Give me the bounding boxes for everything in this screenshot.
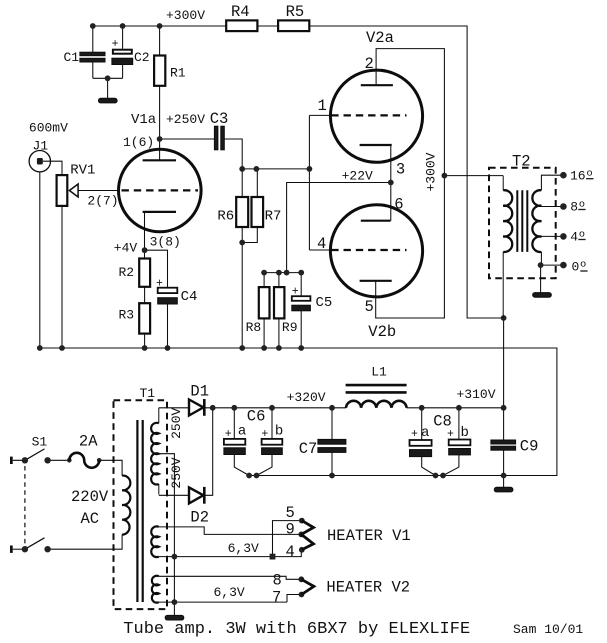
T1 HV secondary winding (centre tapped): [151, 423, 159, 485]
svg-text:5: 5: [286, 504, 295, 522]
resistor R6: [236, 197, 248, 227]
svg-text:D2: D2: [190, 509, 209, 527]
svg-text:C4: C4: [181, 289, 198, 305]
svg-text:6,3V: 6,3V: [214, 585, 245, 600]
svg-text:R2: R2: [119, 265, 135, 280]
svg-text:8º: 8º: [570, 199, 586, 214]
wire: C6a and C6b leads: [234, 408, 272, 476]
svg-text:1: 1: [318, 97, 327, 115]
svg-text:6,3V: 6,3V: [228, 541, 259, 556]
wire: T2 secondary taps to terminals: [541, 175, 564, 292]
T1 core: [137, 420, 142, 602]
capacitor C6a (electrolytic): [224, 439, 245, 445]
V2b plate (bottom): [360, 280, 392, 282]
S1 input terminal lower: [10, 546, 13, 553]
heater chevron V2: [301, 579, 314, 594]
resistor R9: [274, 287, 284, 318]
wire: B+ top rail from C1 to R4, R4-R5 link, R5 to right edge down to primary-bottom node: [93, 26, 504, 408]
resistor R7: [252, 197, 264, 227]
svg-text:5: 5: [365, 298, 374, 316]
svg-text:R4: R4: [231, 3, 250, 21]
svg-text:Sam 10/01: Sam 10/01: [513, 622, 583, 637]
wire: C7 leads: [331, 408, 333, 476]
V2b grid (dashed): [331, 249, 406, 251]
potentiometer RV1 wiper arrow: [69, 184, 78, 197]
heater chevrons V1: [301, 521, 313, 550]
svg-text:R6: R6: [217, 208, 234, 224]
svg-text:2(7): 2(7): [87, 194, 118, 209]
svg-text:16º: 16º: [570, 169, 593, 184]
resistor R1: [154, 56, 165, 86]
svg-text:+250V: +250V: [166, 112, 205, 127]
V2b cathode (top): [361, 220, 391, 222]
svg-text:AC: AC: [81, 510, 100, 528]
svg-text:4: 4: [317, 235, 326, 253]
svg-text:a: a: [238, 424, 246, 440]
capacitor C3: [214, 126, 218, 150]
svg-text:C1: C1: [64, 50, 80, 65]
svg-text:+: +: [447, 428, 454, 441]
V1a grid (dashed): [122, 189, 199, 191]
svg-text:T1: T1: [140, 386, 156, 401]
capacitor C8b (electrolytic): [449, 440, 471, 446]
resistor R8: [259, 287, 270, 318]
svg-text:+: +: [225, 428, 232, 441]
svg-text:R7: R7: [265, 208, 282, 224]
wire: S1 upper pole and fuse link: [13, 459, 70, 461]
wire: C8a and C8b leads: [422, 408, 459, 476]
transformer T1 box (dashed): [114, 400, 168, 609]
V2a grid (dashed): [331, 114, 406, 116]
switch S1 blades: [25, 449, 45, 549]
svg-text:b: b: [275, 424, 283, 440]
svg-text:D1: D1: [190, 383, 209, 401]
svg-text:0º: 0º: [572, 260, 588, 275]
svg-text:C5: C5: [316, 295, 333, 311]
svg-text:R3: R3: [119, 307, 135, 322]
svg-text:a: a: [421, 425, 429, 441]
svg-text:+: +: [156, 277, 163, 290]
wire: V2a plate to +300V node, V2b plate link, T2 primary top: [376, 49, 504, 318]
wire: R1 top and bottom leads: [159, 26, 161, 139]
capacitor C4 (electrolytic): [158, 288, 178, 293]
capacitor C7: [318, 439, 346, 444]
triode V2b envelope: [330, 205, 422, 297]
wire: V2a cathode / V2b cathode +22V node and bias riser: [264, 145, 391, 348]
svg-text:3(8): 3(8): [150, 234, 181, 249]
svg-text:C9: C9: [520, 438, 539, 456]
svg-text:+22V: +22V: [342, 169, 373, 184]
svg-text:9: 9: [286, 521, 295, 539]
svg-text:8: 8: [273, 572, 282, 590]
capacitor C6b (electrolytic): [262, 439, 283, 445]
resistor R5: [278, 20, 309, 31]
T2 secondary winding: [532, 190, 541, 252]
resistor R3: [139, 303, 150, 333]
switch S1 gang link (dashed): [24, 466, 26, 545]
svg-text:+300V: +300V: [166, 8, 205, 23]
svg-text:S1: S1: [32, 434, 48, 449]
wire: heater winding 2 to pins 8, 7: [159, 576, 302, 602]
S1 input terminal upper: [10, 457, 13, 464]
svg-text:V2a: V2a: [366, 29, 394, 47]
wire: grid row R6/R7 tops to V2 grid riser: [242, 169, 309, 348]
resistor R4: [226, 20, 257, 31]
svg-text:2A: 2A: [79, 432, 98, 450]
capacitor C2 (electrolytic): [113, 50, 132, 54]
capacitor C9: [491, 440, 516, 444]
transformer T2 box (dashed): [489, 168, 556, 279]
svg-text:4º: 4º: [570, 229, 586, 244]
wire: V1a cathode to +4V node, R2/R3 chain, C4 branch: [145, 212, 168, 348]
wire: C1 and C2 leads with bottom link and ground stub: [93, 26, 123, 98]
svg-text:HEATER V2: HEATER V2: [326, 579, 410, 597]
svg-text:HEATER V1: HEATER V1: [327, 527, 411, 545]
wire: J1 to RV1 and grounds: [40, 161, 62, 348]
svg-text:+: +: [112, 38, 119, 51]
svg-text:+300V: +300V: [424, 152, 439, 191]
svg-text:Tube amp. 3W with 6BX7 by ELEX: Tube amp. 3W with 6BX7 by ELEXLIFE: [123, 620, 470, 639]
connector J1: [29, 151, 50, 172]
inductor L1 winding: [346, 401, 407, 408]
T2 core: [517, 190, 527, 252]
svg-text:C2: C2: [134, 50, 150, 65]
svg-text:b: b: [461, 425, 469, 441]
diode D2: [189, 487, 203, 503]
potentiometer RV1 body: [57, 175, 68, 206]
T1 heater winding 2: [152, 576, 159, 603]
ground: under T2 secondary: [533, 293, 552, 298]
svg-text:C7: C7: [299, 440, 318, 458]
ground: under C9: [494, 487, 513, 492]
svg-text:R1: R1: [170, 66, 186, 81]
svg-text:C3: C3: [210, 110, 229, 128]
fuse 2A: [69, 453, 99, 468]
T1 primary winding: [122, 476, 130, 535]
svg-text:RV1: RV1: [70, 163, 95, 179]
wire: +310V rail C9 leads and ground stub: [503, 408, 505, 488]
svg-text:+: +: [261, 428, 268, 441]
diode D1: [189, 400, 203, 416]
V2a cathode: [360, 144, 392, 146]
svg-text:V2b: V2b: [368, 323, 396, 341]
V2a plate: [361, 84, 393, 86]
svg-text:J1: J1: [33, 139, 49, 154]
triode V1a envelope: [119, 149, 202, 232]
svg-text:1(6): 1(6): [123, 135, 154, 150]
svg-text:+310V: +310V: [457, 387, 496, 402]
svg-text:V1a: V1a: [131, 112, 156, 128]
svg-text:2: 2: [365, 55, 374, 73]
capacitor C1: [80, 52, 105, 56]
svg-text:3: 3: [396, 160, 405, 178]
svg-text:600mV: 600mV: [29, 121, 68, 136]
svg-text:C6: C6: [247, 408, 266, 426]
svg-text:6: 6: [394, 195, 403, 213]
ground: under C1/C2: [99, 98, 118, 103]
capacitor C8a (electrolytic): [410, 440, 432, 446]
V1a cathode: [143, 211, 176, 213]
wire: V1a plate node to C3 and plate lead: [160, 139, 243, 169]
svg-text:7: 7: [272, 589, 281, 607]
svg-text:250V: 250V: [169, 408, 184, 439]
wire: main ground bus with right riser and filter-ground return: [40, 348, 557, 476]
wire: D2 anode from HV winding bottom and cathode riser: [159, 408, 213, 496]
V1a plate: [143, 159, 176, 161]
T2 primary winding: [503, 190, 512, 252]
wire: RV1 wiper to V1a grid: [78, 190, 118, 192]
svg-text:L1: L1: [371, 365, 387, 380]
resistor R2: [139, 259, 150, 287]
svg-text:+320V: +320V: [287, 390, 326, 405]
svg-text:+: +: [292, 285, 299, 298]
wire: mains to T1 primary: [48, 460, 123, 549]
wire: heater winding 1 to pins 9, 5, 4: [159, 521, 302, 557]
triode V2a envelope: [330, 70, 422, 162]
capacitor C5 (electrolytic): [292, 296, 311, 301]
svg-text:250V: 250V: [169, 457, 184, 488]
wire: HV winding centre tap to ground: [159, 454, 175, 616]
svg-text:220V: 220V: [71, 488, 109, 506]
wire: S1 lower pole: [13, 548, 25, 550]
ground: under T1: [165, 615, 184, 620]
svg-text:R8: R8: [246, 320, 262, 335]
svg-text:T2: T2: [512, 153, 531, 171]
svg-text:4: 4: [286, 543, 295, 561]
wire: +320V rail from HV winding through D1 to L1 and on to +310 node: [159, 407, 504, 409]
svg-text:+4V: +4V: [114, 241, 138, 256]
svg-text:+: +: [411, 428, 418, 441]
svg-text:R9: R9: [282, 320, 298, 335]
T1 heater winding 1: [151, 526, 159, 557]
inductor L1 core bars: [346, 385, 407, 392]
svg-text:R5: R5: [286, 3, 305, 21]
wire: V2a/V2b grid riser: [309, 115, 330, 250]
